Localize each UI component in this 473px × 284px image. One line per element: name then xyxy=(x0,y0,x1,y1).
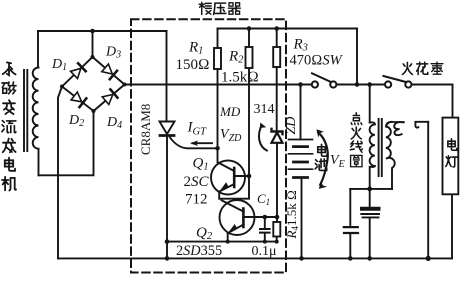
node gate junction xyxy=(215,146,220,151)
thyristor CR8AM8 symbol xyxy=(160,122,218,149)
node bridge left vertex xyxy=(60,85,64,89)
wire main bus left segment xyxy=(125,84,312,86)
wire Q1 emitter to Q2 collector node xyxy=(218,192,220,199)
svg-text:470ΩSW: 470ΩSW xyxy=(290,53,344,69)
wire bridge top lead xyxy=(92,31,94,57)
wire battery top lead xyxy=(300,85,302,140)
wire bus between switches xyxy=(337,84,384,86)
svg-text:MD: MD xyxy=(219,104,241,119)
wire C1 bottom lead xyxy=(264,233,266,242)
svg-text:2SD355: 2SD355 xyxy=(176,243,222,259)
condenser 1 plates xyxy=(344,227,358,233)
node SCR cathode ground junction xyxy=(165,256,170,261)
wire bridge bottom drop xyxy=(39,111,94,175)
wire generator bottom lead xyxy=(38,149,40,175)
wire R1 bottom to gate node xyxy=(217,69,219,148)
zener diode MD314 xyxy=(272,129,283,143)
svg-text:ZD: ZD xyxy=(284,117,299,135)
wire R4 bottom lead xyxy=(276,237,278,242)
resistor R4 body xyxy=(273,222,280,237)
label battery vertical xyxy=(315,144,327,170)
wire battery bottom lead xyxy=(301,178,303,259)
node condenser1 ground junction xyxy=(348,256,353,261)
generator winding L1 xyxy=(33,68,39,149)
generator core lines xyxy=(24,70,27,151)
node SCR cathode emitter rail junction xyxy=(165,239,170,244)
label regulator title xyxy=(199,2,240,14)
transistor Q2 xyxy=(220,200,255,235)
capacitor C1 plates xyxy=(260,229,270,233)
node bridge top vertex xyxy=(91,55,95,59)
node ignition feed bus junction xyxy=(367,82,372,87)
wire condenser 2 top lead xyxy=(369,189,371,207)
switch SW2 (spark plug kill switch) xyxy=(384,76,412,88)
svg-text:2SC: 2SC xyxy=(184,174,210,190)
svg-text:0.1μ: 0.1μ xyxy=(252,244,277,259)
label generator name (permanent magnet AC generator) vertical xyxy=(2,62,16,190)
node bridge right vertex xyxy=(123,83,127,87)
wire C1 top lead xyxy=(264,217,266,229)
wire R2 top lead xyxy=(248,29,250,48)
switch SW1 xyxy=(312,73,337,87)
node battery bottom ground junction xyxy=(299,256,304,261)
wire ignition primary feed xyxy=(369,85,371,123)
resistor R3 body xyxy=(273,47,280,67)
ignition coil core xyxy=(379,119,382,176)
label lamp vertical xyxy=(446,139,458,167)
label spark plug xyxy=(402,62,443,74)
wire top-left rail xyxy=(38,30,167,32)
wire rail-to-bus drop xyxy=(356,29,358,85)
node condenser2 ground junction xyxy=(367,256,372,261)
wire condenser 1 bottom lead xyxy=(349,234,351,259)
wire generator top lead xyxy=(37,31,39,68)
svg-text:150Ω: 150Ω xyxy=(176,57,210,73)
node bridge bottom vertex xyxy=(92,109,96,113)
transistor Q1 xyxy=(211,161,249,195)
spark plug gap right electrode curl xyxy=(415,122,428,128)
node Q2 base R4 junction xyxy=(275,215,280,220)
wire emitter rail xyxy=(167,241,277,243)
svg-text:R41.5k Ω: R41.5k Ω xyxy=(284,190,300,239)
gate current arrow IGT xyxy=(190,140,212,146)
label ignition coil vertical xyxy=(350,113,362,167)
node spark electrode ground junction xyxy=(426,256,431,261)
svg-text:314: 314 xyxy=(254,102,275,117)
svg-text:712: 712 xyxy=(185,192,208,208)
diode D3 xyxy=(102,64,117,79)
wire coil common node xyxy=(350,188,392,190)
zener current curved arrow xyxy=(259,123,267,151)
wire Q2 emitter lead xyxy=(227,233,229,241)
ignition coil primary winding xyxy=(370,122,375,189)
spark plug gap left electrode (HT lead curl) xyxy=(386,122,404,135)
node R2 top junction xyxy=(247,26,252,31)
ignition coil secondary winding xyxy=(386,127,395,189)
wire zener anode to Q2 base node and R4 xyxy=(276,143,278,222)
wire top-right rail xyxy=(218,28,358,30)
svg-text:CR8AM8: CR8AM8 xyxy=(138,104,153,155)
node R4 bottom junction xyxy=(275,240,279,244)
regulator dashed box xyxy=(131,19,286,272)
node coil common junction xyxy=(367,187,372,192)
node battery top bus junction xyxy=(298,82,303,87)
battery current curved arrow xyxy=(316,129,327,189)
wire R2 bottom rail to Q1 base and Q2 collector xyxy=(219,68,249,199)
node Q1 base junction xyxy=(247,174,252,179)
wire R1 top lead xyxy=(217,29,219,49)
wire spark gap right electrode drop xyxy=(427,122,429,259)
wire R3 top lead xyxy=(276,29,278,48)
node rail drop bus junction xyxy=(355,82,360,87)
wire bus after switch 2 to lamp xyxy=(412,85,453,118)
node R3 top junction xyxy=(274,26,279,31)
wire SCR anode drop xyxy=(166,31,168,122)
battery plates xyxy=(289,140,313,178)
node Q2 base C1 junction xyxy=(263,215,268,220)
diode bridge arm wires xyxy=(62,57,125,111)
diode D1 xyxy=(71,63,86,78)
diode D4 xyxy=(102,89,117,104)
wire Q1 collector lead xyxy=(217,148,219,162)
wire R3 bottom to zener xyxy=(276,67,278,132)
node Q2 emitter rail junction xyxy=(226,240,230,244)
wire condenser 1 top lead xyxy=(349,189,351,227)
wire SCR cathode drop xyxy=(166,137,168,258)
wire bridge left vertex drop xyxy=(58,87,62,259)
wire condenser 2 bottom lead xyxy=(369,218,371,258)
wire lamp bottom lead xyxy=(451,194,453,258)
svg-text:1.5kΩ: 1.5kΩ xyxy=(221,70,259,86)
node bridge top junction xyxy=(90,29,95,34)
wire ground rail xyxy=(58,257,452,259)
wire Q2 base lead xyxy=(243,216,277,218)
node C1 bottom junction xyxy=(263,240,267,244)
resistor R1 body xyxy=(214,48,221,69)
condenser 2 stacked plates xyxy=(361,209,379,218)
diode D2 xyxy=(71,92,86,107)
resistor R2 body xyxy=(246,47,253,68)
lamp box xyxy=(443,118,459,195)
